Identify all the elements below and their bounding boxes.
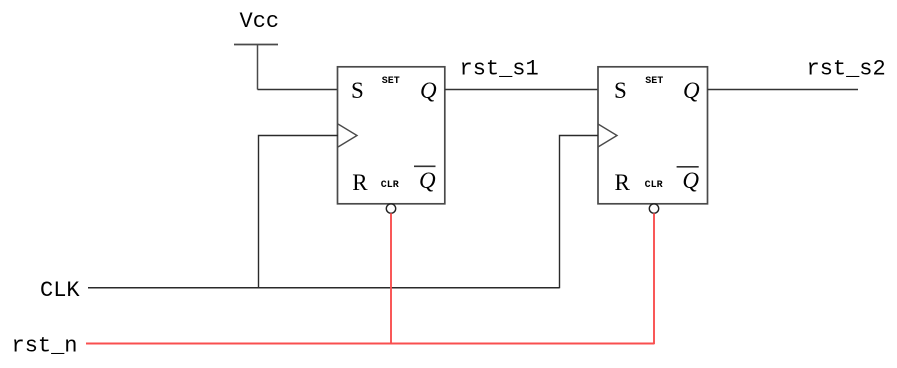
- svg-text:SET: SET: [382, 76, 400, 87]
- wire rst_n to U2 CLR bubble (red): [653, 213, 655, 344]
- svg-text:CLR: CLR: [381, 180, 399, 191]
- svg-text:S: S: [351, 78, 364, 103]
- svg-text:Q: Q: [682, 168, 699, 193]
- power symbol Vcc bar: [234, 44, 278, 46]
- wire rst_n to U1 CLR bubble (red): [390, 213, 392, 344]
- svg-text:rst_s1: rst_s1: [460, 57, 539, 82]
- wire clock branch to U1: [259, 136, 339, 289]
- U2 CLR inversion bubble: [649, 204, 658, 213]
- wire clock branch to U2: [560, 136, 599, 289]
- wire U1 Q to U2 S (rst_s1): [445, 89, 598, 91]
- flip-flop U2 body: [598, 67, 708, 204]
- flip-flop U1 body: [338, 67, 445, 204]
- wire Vcc to S input of U1: [258, 89, 339, 91]
- U1 clock triangle: [338, 124, 357, 147]
- svg-text:Vcc: Vcc: [240, 9, 280, 34]
- U2 Q-bar overline: [677, 166, 699, 168]
- svg-text:R: R: [615, 170, 631, 195]
- svg-text:S: S: [614, 78, 627, 103]
- U2 clock triangle: [598, 124, 617, 147]
- svg-text:Q: Q: [419, 168, 436, 193]
- wire Vcc vertical: [257, 45, 259, 90]
- svg-text:SET: SET: [645, 76, 663, 87]
- wire rst_n main (red): [86, 343, 654, 345]
- svg-text:rst_s2: rst_s2: [807, 57, 886, 82]
- svg-text:R: R: [352, 170, 368, 195]
- wire U2 Q output (rst_s2): [708, 89, 859, 91]
- svg-text:rst_n: rst_n: [12, 334, 78, 359]
- svg-text:Q: Q: [683, 78, 700, 103]
- svg-text:Q: Q: [420, 78, 437, 103]
- svg-text:CLK: CLK: [40, 278, 80, 303]
- U1 Q-bar overline: [414, 165, 436, 167]
- U1 CLR inversion bubble: [386, 204, 395, 213]
- svg-text:CLR: CLR: [645, 180, 663, 191]
- wire CLK main: [88, 287, 560, 289]
